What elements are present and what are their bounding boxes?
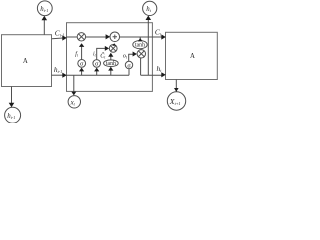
left cell box A (previous timestep) [2, 35, 52, 87]
wire candidate tanh up to multiply2 [110, 56, 112, 60]
arrowhead up into multiply1 from sigma f [79, 43, 84, 47]
svg-text:ot: ot [123, 54, 128, 60]
wire branch up to sigma i [96, 70, 98, 75]
svg-text:Xt+1: Xt+1 [169, 97, 181, 106]
operator multiply 3 (output gate) [137, 50, 145, 58]
wire tanh to multiply3 [140, 48, 142, 51]
node X_t+1 circle [167, 92, 185, 110]
wire h line inside cell [67, 74, 130, 76]
wire branch up to candidate tanh [110, 70, 112, 76]
svg-text:A: A [190, 53, 195, 60]
svg-text:ht: ht [146, 6, 151, 13]
svg-text:ht-1: ht-1 [54, 65, 62, 74]
wire sigma f up to multiply1 [81, 46, 83, 59]
node x_t circle [68, 96, 80, 108]
svg-text:Ct: Ct [155, 27, 162, 36]
node h_t-1 bottom-left circle [5, 107, 21, 123]
arrowhead h_t into right box [161, 72, 166, 77]
svg-text:Ct-1: Ct-1 [55, 28, 65, 37]
right cell box A (next timestep) [166, 32, 218, 79]
wire sigma o down to h line [128, 69, 130, 76]
node h_t circle top right [143, 1, 157, 15]
wire C line multiply1 to plus [86, 36, 107, 38]
node h_t-1 top circle [37, 1, 52, 16]
gate sigma o [125, 61, 132, 68]
operator multiply 2 (input gate) [109, 45, 117, 53]
svg-text:A: A [23, 58, 28, 65]
arrowhead down into x_t circle [71, 92, 76, 96]
wire sigma o elbow to multiply3 [129, 54, 134, 61]
wire multiply3 down to h out line [140, 58, 142, 75]
svg-text:ft: ft [75, 51, 79, 58]
wire h-line down to x_t circle [73, 75, 75, 92]
arrowhead up into sigma i [94, 68, 99, 72]
wire sigma i elbow to multiply2 [97, 48, 106, 59]
arrowhead into add [106, 34, 111, 39]
arrowhead h_t-1 into cell [62, 73, 67, 78]
gate tanh candidate ellipse [104, 60, 119, 67]
output tanh ellipse [133, 41, 147, 49]
arrowhead up into sigma f [79, 68, 84, 72]
wire C line plus to right edge and out to right box [120, 36, 162, 38]
svg-text:tanh: tanh [106, 61, 116, 67]
gate sigma f [78, 60, 86, 68]
arrowhead down into X_t+1 circle [174, 88, 179, 92]
wire left box top to h_t-1 circle [43, 19, 45, 35]
arrowhead up into output tanh from C line [138, 38, 143, 41]
operator add [110, 32, 120, 42]
arrowhead into multiply2 from sigma i elbow [105, 46, 109, 51]
svg-text:ht-1: ht-1 [7, 113, 15, 120]
svg-text:tanh: tanh [135, 43, 145, 49]
svg-text:C̃t: C̃t [100, 53, 106, 60]
wire h out branch up to h_t circle [147, 19, 149, 75]
arrowhead up into candidate tanh [108, 67, 113, 71]
wire C line inside cell left segment [67, 36, 78, 38]
wire left box bottom to h_t-1 bottom circle [11, 87, 13, 105]
svg-text:ht-1: ht-1 [40, 6, 48, 13]
arrowhead into multiply3 from sigma o elbow [133, 52, 137, 57]
arrowhead up into multiply2 from candidate tanh [108, 53, 113, 57]
wire right box bottom to X_t+1 circle [175, 80, 177, 92]
operator multiply 1 (forget) [77, 33, 85, 41]
gate sigma i [93, 60, 101, 68]
wire h_t-1 from left box to cell [52, 74, 64, 76]
wire C_t-1 from left box to cell [52, 37, 63, 40]
wire C line branch down into output tanh [139, 37, 141, 41]
svg-text:it: it [93, 51, 97, 57]
arrowhead C_t-1 into cell [62, 35, 67, 40]
svg-text:ht: ht [157, 64, 163, 73]
arrowhead up into h_t circle [146, 16, 152, 21]
svg-text:xt: xt [70, 99, 76, 106]
arrowhead up into add from multiply2 [112, 43, 116, 46]
arrowhead down into h_t-1 bottom circle [9, 103, 15, 108]
arrowhead C_t into right box [161, 34, 166, 39]
middle LSTM cell box [67, 23, 153, 92]
arrowhead up into h_t-1 top circle [42, 16, 48, 21]
wire h out line to right box [141, 74, 162, 76]
wire branch up to sigma f [81, 70, 83, 75]
